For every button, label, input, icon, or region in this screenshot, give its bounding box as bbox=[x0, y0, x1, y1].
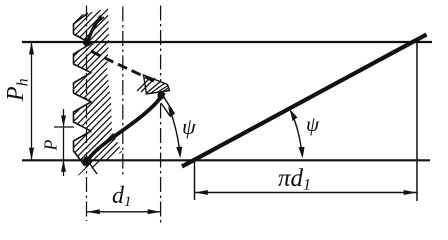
left generator dash-dot line bbox=[86, 6, 88, 222]
thick diagonal hypotenuse bbox=[182, 35, 427, 167]
right tooth (hatched) bbox=[137, 75, 170, 94]
svg-text:P: P bbox=[41, 140, 61, 152]
helix continuation above top line bbox=[87, 16, 101, 44]
svg-text:Ph: Ph bbox=[3, 78, 32, 102]
svg-text:ψ: ψ bbox=[182, 114, 196, 139]
pi d1 dimension line bbox=[195, 192, 417, 194]
P arrow down to tick bbox=[61, 116, 66, 128]
pi d1 arrow left bbox=[195, 190, 208, 195]
top horizontal line bbox=[22, 41, 432, 43]
pi d1 arrow right bbox=[404, 190, 417, 195]
d1 dimension line bbox=[87, 211, 161, 213]
svg-text:d1: d1 bbox=[112, 183, 132, 210]
node blob right tooth bbox=[157, 92, 164, 100]
helix continuation below bottom line bbox=[88, 161, 97, 174]
right psi arc top arrow bbox=[290, 110, 298, 122]
node blob top bbox=[83, 39, 91, 47]
right psi arc arrow bbox=[299, 147, 305, 158]
hatched screw body band bbox=[74, 8, 123, 176]
left psi arc top arrow bbox=[168, 106, 175, 117]
bottom horizontal line bbox=[22, 159, 430, 161]
d1 arrow left bbox=[87, 209, 100, 214]
helix continuation below right tooth bbox=[161, 103, 170, 116]
tangent line at helix end bbox=[163, 95, 174, 112]
pi d1 extension line left bbox=[194, 161, 196, 200]
left psi arc bbox=[170, 110, 180, 153]
svg-text:ψ: ψ bbox=[306, 112, 320, 136]
fork stroke at helix top bbox=[93, 17, 104, 26]
thread profile zigzag outline bbox=[74, 13, 92, 166]
right psi arc bbox=[291, 111, 302, 153]
Ph dimension line bbox=[31, 42, 33, 160]
screw axis dash-dot line bbox=[122, 7, 124, 177]
P arrow up to bottom line bbox=[61, 160, 66, 172]
svg-text:πd1: πd1 bbox=[278, 165, 311, 194]
right generator dash-dot line bbox=[160, 6, 162, 227]
Ph arrow up bbox=[29, 42, 34, 55]
pi d1 extension line right bbox=[416, 42, 418, 201]
helix back half (dashed) bbox=[91, 51, 154, 81]
left psi arc arrow bbox=[176, 147, 182, 159]
Ph arrow down bbox=[29, 148, 34, 161]
d1 arrow right bbox=[148, 209, 161, 214]
node blob bottom bbox=[83, 156, 91, 165]
P dimension line bbox=[63, 109, 65, 176]
P tick bbox=[54, 126, 74, 128]
helix front half (thick curve) bbox=[87, 93, 165, 163]
